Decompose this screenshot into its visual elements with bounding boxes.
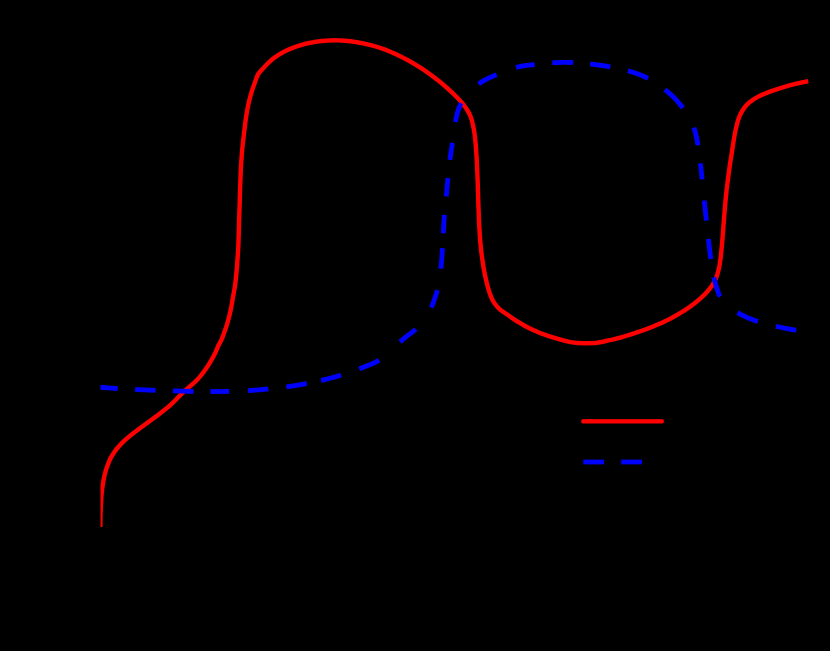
- red solid curve (series 1): [100, 40, 808, 527]
- legend blue dashed line sample: [583, 460, 642, 465]
- legend red line sample: [583, 419, 662, 423]
- blue dashed curve (series 2): [100, 62, 796, 391]
